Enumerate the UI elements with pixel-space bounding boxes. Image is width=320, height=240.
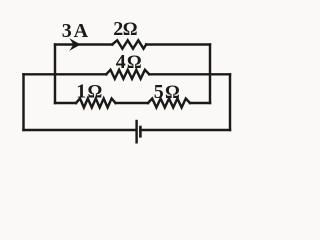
resistor R5 5ohm zigzag xyxy=(148,99,190,108)
wire row3 middle segment xyxy=(116,102,149,104)
current arrow 3A on top wire xyxy=(69,38,80,51)
svg-text:5Ω: 5Ω xyxy=(154,81,180,103)
wire row2 left segment xyxy=(24,73,107,75)
wire bottom left segment xyxy=(24,129,136,131)
resistor R3 4ohm zigzag xyxy=(106,70,149,79)
wire inner-left vertical node xyxy=(54,45,56,104)
svg-text:2Ω: 2Ω xyxy=(113,18,137,40)
wire outer-left vertical xyxy=(22,74,24,130)
wire top row right segment xyxy=(146,43,210,45)
resistor R1 1ohm zigzag xyxy=(76,99,116,108)
wire row2 right segment xyxy=(149,73,230,75)
wire inner-right vertical node xyxy=(209,45,211,104)
svg-text:3 A: 3 A xyxy=(62,20,89,42)
wire row3 lead-in xyxy=(55,102,76,104)
wire row3 right segment xyxy=(190,102,210,104)
svg-text:1Ω: 1Ω xyxy=(76,81,102,103)
wire outer-right vertical xyxy=(229,74,231,130)
svg-text:4Ω: 4Ω xyxy=(116,51,142,73)
resistor R2 2ohm zigzag xyxy=(112,40,146,48)
battery B1 long plate xyxy=(135,121,137,142)
wire bottom right segment xyxy=(140,129,230,131)
wire top row left segment xyxy=(55,43,112,45)
battery B1 short plate xyxy=(139,127,142,136)
